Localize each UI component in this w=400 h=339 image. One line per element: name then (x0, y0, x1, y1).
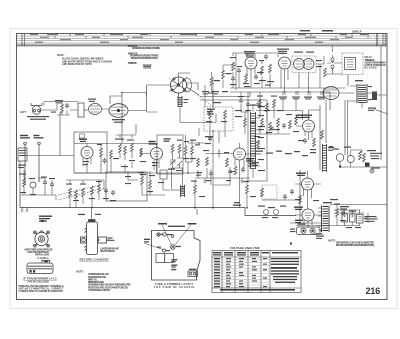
wires around S1 (147, 73, 200, 97)
cap C9 (103, 158, 107, 164)
label row avc (256, 151, 316, 157)
radio / aux terminals (20, 135, 44, 139)
svg-text:PART No 12345: PART No 12345 (35, 254, 50, 257)
svg-text:VIEWED FROM SPINDLE END: VIEWED FROM SPINDLE END (131, 57, 158, 60)
coil under switch (178, 96, 182, 107)
resistor on B line (321, 130, 324, 139)
osc pad labels (202, 91, 228, 94)
svg-text:S-14453-1: S-14453-1 (38, 257, 50, 260)
cap C21 (50, 182, 54, 188)
coil label (88, 99, 96, 102)
svg-text:NOTE -: NOTE - (76, 270, 84, 273)
layout circle labels (157, 234, 181, 251)
ac interlock plug (297, 227, 321, 235)
labels (208, 73, 232, 94)
svg-text:OTHERWISE SHOWN: OTHERWISE SHOWN (88, 289, 110, 292)
svg-text:NOTE:: NOTE: (328, 240, 336, 243)
scattered cell entries (226, 258, 267, 287)
labels (196, 150, 209, 176)
svg-text:216: 216 (366, 286, 381, 296)
driver box (172, 168, 183, 190)
tube V4 (81, 147, 93, 159)
svg-text:IF TRANSFORMER L4 L5: IF TRANSFORMER L4 L5 (24, 277, 57, 281)
labels under V5 (140, 161, 158, 176)
svg-text:VOLTAGE ANALYSIS: VOLTAGE ANALYSIS (230, 246, 260, 250)
junction dots (187, 130, 214, 174)
labels speaker field (346, 216, 378, 228)
cap C20 (43, 180, 47, 186)
resistor R26 (226, 158, 229, 167)
resistor R4 (261, 66, 264, 75)
volume control label (39, 216, 52, 222)
svg-text:LEFT: LEFT (20, 111, 27, 114)
stacked labels right (171, 259, 196, 270)
record changer (81, 220, 111, 255)
label 1st IF (164, 138, 171, 142)
svg-text:(DETENT): (DETENT) (144, 66, 152, 69)
chassis layout labels above (158, 223, 197, 227)
wires (241, 92, 248, 134)
labels under V7 (298, 140, 316, 150)
dot above table (290, 243, 292, 245)
dashed diagonals gang link (58, 185, 105, 200)
volume ladder box (248, 100, 267, 181)
wires right of cluster (299, 56, 324, 92)
wires (128, 171, 170, 195)
label V6 (246, 158, 254, 162)
cap under V1 (254, 74, 258, 80)
if trimmer cap row (283, 91, 323, 95)
label (295, 199, 319, 201)
ladder labels (250, 105, 265, 172)
label V4 (79, 139, 87, 143)
table header smudge (213, 252, 298, 256)
osc coil L3B (224, 110, 227, 119)
pickup network wires (41, 102, 78, 116)
tube V6 (234, 148, 246, 160)
svg-text:SHOWN IN COUNTERCLOCKWISE: SHOWN IN COUNTERCLOCKWISE (132, 47, 160, 50)
label V5 (149, 141, 158, 145)
wires V5 box (186, 135, 193, 173)
labels (191, 180, 256, 197)
resistor right of switch 2 (222, 70, 225, 79)
ladder taps (253, 104, 260, 178)
ladder wires (66, 180, 104, 208)
osc coil caption (365, 56, 386, 69)
output transformer top right (357, 84, 367, 103)
label VR (295, 220, 303, 224)
svg-text:BEFORE OPERATING RECEIVER (SEE: BEFORE OPERATING RECEIVER (SEE NOTE) (336, 244, 374, 247)
V5 stem (141, 144, 159, 174)
resistor R9 (324, 68, 327, 77)
label V8 (296, 173, 306, 177)
IF coil A (171, 144, 174, 153)
note bottom right (328, 240, 374, 248)
cathode resistor (299, 195, 302, 204)
labels (103, 198, 116, 201)
if trans bottom marks (30, 261, 49, 273)
cap C16 (303, 138, 307, 144)
dark blob (365, 163, 370, 167)
vertical feeders (210, 66, 236, 143)
tube V3 oval (109, 104, 128, 118)
resistor R28 (244, 118, 247, 127)
lamp stem (339, 161, 341, 165)
svg-text:BC BAND: BC BAND (365, 67, 377, 70)
coil labels (206, 102, 242, 122)
small oval coil (89, 104, 102, 115)
resistor right of switch (210, 77, 213, 86)
right column resistors (259, 99, 262, 108)
pointer lines (144, 225, 191, 250)
border frame (17, 34, 388, 300)
labels (286, 114, 299, 132)
band tick marks (22, 34, 385, 46)
B+ bus (20, 195, 296, 216)
cap C14b (218, 149, 221, 158)
speaker terminal dot (41, 220, 44, 222)
labels (334, 204, 346, 222)
label (243, 83, 260, 84)
bus label (233, 202, 241, 206)
svg-text:RECORD CHANGER: RECORD CHANGER (80, 257, 109, 261)
left column parts (232, 62, 235, 71)
cap C2 (231, 76, 235, 82)
tube V3 label (112, 119, 125, 123)
gang link dashed (198, 95, 216, 109)
loop wires (340, 100, 387, 167)
svg-text:SHELF: SHELF (352, 30, 362, 34)
cap C25 (209, 171, 213, 177)
bus junction dots (91, 207, 248, 209)
wires avc (256, 92, 290, 134)
osc coil L3A (209, 110, 212, 119)
coils right of box (184, 146, 187, 155)
changer labels (108, 237, 115, 241)
tube V5 (151, 148, 163, 160)
osc tube oval (323, 87, 339, 100)
svg-text:ON-OFF SWITCH: ON-OFF SWITCH (100, 251, 115, 253)
changer knob (89, 220, 95, 222)
labels near cluster (294, 52, 322, 68)
audio output tube (302, 178, 314, 190)
plug labels (290, 199, 338, 239)
oscillator coil dashed box mid (204, 107, 233, 131)
V7 wires (256, 99, 320, 140)
label V2 (277, 49, 289, 55)
choke bar (181, 185, 185, 197)
feedback box (106, 172, 147, 201)
rotary switch S1 (169, 77, 192, 95)
svg-text:OUTPUT AT 1620 KC ON: OUTPUT AT 1620 KC ON (365, 64, 386, 67)
lower left tone network (23, 178, 26, 187)
ac line labels (367, 150, 382, 169)
2nd IF coils (110, 150, 113, 159)
cap C101 (65, 103, 69, 109)
cathode resistor (234, 166, 237, 175)
svg-text:ADJUST FOR MAXIMUM: ADJUST FOR MAXIMUM (365, 61, 386, 64)
electrolytics lower mid (261, 188, 264, 197)
labels (19, 174, 55, 196)
resistor R33 (246, 185, 249, 194)
svg-text:ON A2: ON A2 (365, 56, 373, 59)
svg-text:TOP VIEW OF CHASSIS: TOP VIEW OF CHASSIS (154, 285, 194, 289)
main lower bus (74, 143, 205, 173)
labels left (230, 57, 242, 85)
tube V2 if amp (279, 57, 291, 69)
phono jack circle (370, 169, 374, 173)
V2 pin wires (281, 69, 288, 93)
caps left col (256, 102, 260, 108)
switch note text block (128, 45, 161, 69)
IF coil B (178, 144, 181, 153)
ladder labels (66, 181, 102, 201)
svg-text:POSITIONS: POSITIONS (128, 62, 137, 65)
resistor R14 (289, 120, 292, 129)
label V9 (294, 207, 303, 211)
coil wires (111, 135, 136, 173)
speaker plug label (368, 108, 376, 111)
labels (238, 96, 256, 123)
coil labels (113, 139, 135, 168)
trimmer pair (331, 58, 334, 61)
trimmer labels (168, 169, 182, 172)
power transformer (318, 206, 329, 233)
IF box with tube V4 (74, 132, 107, 173)
label V1 (244, 51, 255, 57)
speaker (34, 231, 50, 248)
dial lamp I1 (336, 154, 344, 162)
layout tube circles (157, 233, 175, 252)
chassis layout box (152, 231, 201, 281)
cap C6 (264, 54, 268, 60)
coil box (160, 170, 167, 179)
resistor R5 (269, 64, 272, 73)
wires ps right (334, 204, 368, 226)
labels under tube (83, 144, 102, 165)
labels (51, 100, 63, 113)
grid resistor (140, 148, 143, 157)
page edge (10, 29, 397, 309)
V9 wires (295, 215, 322, 228)
pickup caption (27, 116, 49, 120)
V6 wires (195, 128, 262, 208)
ground marks (203, 178, 244, 183)
coil L13 (323, 144, 327, 172)
can labels (340, 206, 356, 212)
wires tone (20, 161, 56, 200)
wires V1-V2 (251, 53, 284, 88)
svg-text:ARE INDICATED BY DOTS: ARE INDICATED BY DOTS (62, 63, 92, 66)
resistor R31 (149, 180, 152, 189)
trimmer cluster (170, 153, 182, 168)
resistor R18 (249, 158, 252, 167)
filter cap (341, 210, 345, 216)
mica cap C13 (208, 136, 212, 142)
svg-text:TYPE OF COILS USED: TYPE OF COILS USED (27, 281, 49, 283)
labels (177, 140, 200, 160)
wires tube V3 (102, 93, 158, 113)
candohm ladder (251, 112, 256, 169)
resistor under V1 (245, 74, 248, 83)
transformer labels (355, 80, 372, 100)
svg-text:CONNECTION AS SHOWN IS ESSENTI: CONNECTION AS SHOWN IS ESSENTIAL (19, 290, 65, 293)
ballast resistors (359, 151, 362, 160)
V1 pin wires (247, 53, 255, 88)
resistor R30 (141, 176, 144, 185)
resistor ladder (69, 188, 72, 197)
resistor R17b (206, 157, 209, 166)
wires left col (233, 53, 251, 88)
audio tube V7 (303, 120, 315, 132)
long vertical wires right section (320, 46, 381, 170)
left col entries (214, 258, 220, 287)
speaker caption (25, 249, 53, 261)
layout title (154, 282, 194, 289)
avc network resistors (261, 118, 264, 127)
tube V1 converter (245, 57, 257, 69)
padder caps (239, 98, 243, 104)
resistor R101 (61, 104, 64, 113)
lamp labels (329, 146, 351, 150)
resistor R17 (313, 138, 316, 147)
IF transformer drawing (27, 260, 53, 273)
cap (241, 167, 245, 173)
dial lamp I2 (347, 156, 354, 163)
wires into box (20, 93, 156, 156)
label V7 triode (296, 115, 303, 119)
speaker plug block (372, 92, 377, 101)
trimmer labels (279, 97, 325, 100)
wires (195, 131, 247, 215)
cap C14 (282, 123, 286, 129)
cap C26 (228, 169, 232, 175)
pot (30, 182, 36, 188)
1st IF box (157, 135, 183, 174)
cap C23 (111, 190, 115, 196)
V4 pin parts (83, 144, 101, 174)
resistor R32 (194, 185, 197, 194)
left outside label (144, 239, 150, 243)
antenna box (18, 148, 27, 161)
buses (200, 88, 345, 100)
right text section rows (220, 258, 299, 291)
labels (257, 96, 283, 112)
labels (244, 60, 274, 87)
small box in V4 box (80, 134, 85, 138)
cap C22 (104, 188, 108, 194)
band text smudges (30, 34, 369, 42)
dial band chart (17, 36, 387, 46)
2nd IF transformer cluster (294, 59, 315, 70)
labels V6 right (224, 136, 260, 172)
note block bottom mid (76, 270, 131, 292)
V8 wires (295, 171, 321, 209)
rectifier tube V9 (302, 209, 314, 221)
ps buses (297, 205, 388, 231)
note text block left (57, 54, 112, 66)
gang squares (156, 254, 198, 277)
if trans note (19, 285, 65, 293)
labels lower mid (258, 206, 286, 219)
electrolytic cans (342, 214, 348, 222)
resistor R15 (295, 116, 298, 125)
grid resistor R16 (197, 158, 200, 167)
dashed box around IF cluster (292, 56, 316, 73)
oscillator top right dashed (342, 53, 363, 75)
doubler dashed box (262, 185, 277, 199)
resistor in box (100, 148, 103, 157)
label V7 (300, 115, 312, 119)
resistor R19 (257, 140, 260, 149)
filter resistor (336, 208, 339, 217)
field coil box (357, 215, 364, 224)
coupling box (78, 103, 84, 117)
labels (125, 172, 164, 192)
